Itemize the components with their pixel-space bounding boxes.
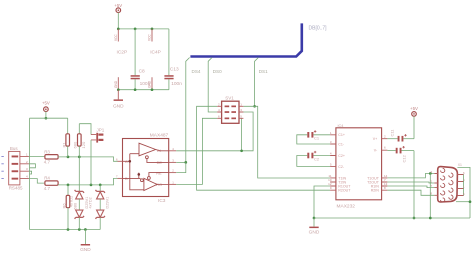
wire +5V down bbox=[413, 116, 415, 139]
wire net B row bbox=[58, 178, 117, 185]
svg-text:Bus: Bus bbox=[10, 146, 19, 151]
wire VCC rail top bbox=[118, 28, 169, 30]
svg-text:C1+: C1+ bbox=[338, 133, 345, 137]
jumper JP1 bbox=[91, 128, 105, 143]
wire to C8 bbox=[134, 29, 136, 75]
svg-text:C2+: C2+ bbox=[338, 154, 345, 158]
wire X1 right loopback bbox=[463, 175, 465, 196]
svg-text:680: 680 bbox=[72, 141, 77, 148]
svg-text:VCC: VCC bbox=[148, 34, 152, 41]
IC3 pin DI stub bbox=[169, 150, 177, 152]
wire DI to SV1 pin3 bbox=[176, 112, 253, 151]
supply +5V symbol P2 bbox=[42, 100, 50, 111]
net DS1 wire (bus entry) bbox=[255, 58, 259, 107]
wire diode column B bbox=[99, 185, 101, 191]
blue pin marks bbox=[1, 156, 3, 178]
svg-text:SV1: SV1 bbox=[225, 96, 234, 101]
IC3 internal wiring bbox=[123, 154, 144, 190]
svg-text:GND: GND bbox=[114, 80, 118, 88]
svg-text:GND: GND bbox=[80, 247, 91, 253]
svg-text:680: 680 bbox=[73, 202, 78, 209]
wire between diodes col A bbox=[78, 199, 80, 210]
wire to C13 bbox=[168, 29, 170, 75]
diode D2 zener (lower, col A) bbox=[75, 210, 84, 219]
ground symbol bottom left bbox=[80, 230, 91, 254]
IC3 pin RO stub bbox=[169, 183, 177, 185]
wire SV1 pin2 to MAX232 R2OUT bbox=[197, 106, 331, 190]
svg-text:C8: C8 bbox=[139, 68, 145, 74]
junction C12 gnd bbox=[413, 217, 416, 220]
IC2P VCC pin bbox=[114, 29, 119, 42]
svg-text:4.7: 4.7 bbox=[44, 160, 51, 165]
junction B-JP1 bbox=[90, 184, 93, 187]
junction bbox=[117, 28, 120, 31]
svg-text:R6: R6 bbox=[62, 203, 67, 209]
svg-text:IC2P: IC2P bbox=[117, 50, 128, 56]
wire T2OUT to X1 bbox=[387, 182, 434, 183]
MAX232 pin names bbox=[338, 133, 379, 192]
header SV1 bbox=[217, 96, 243, 124]
X1 pin numbers bbox=[430, 170, 465, 196]
resistor R3 bbox=[44, 149, 58, 164]
wire T1OUT to X1 bbox=[387, 174, 434, 178]
wire C13 bottom bbox=[168, 79, 170, 89]
wire pin2 to gnd vertical bbox=[29, 164, 36, 168]
svg-text:RS485: RS485 bbox=[9, 186, 23, 191]
junction bbox=[45, 117, 48, 120]
svg-text:VCC: VCC bbox=[114, 34, 118, 41]
MAX232 left pin stubs bbox=[330, 135, 336, 190]
svg-text:C1-: C1- bbox=[338, 142, 345, 146]
svg-text:C2-: C2- bbox=[338, 165, 345, 169]
svg-text:X1: X1 bbox=[458, 163, 462, 167]
junction ring bbox=[469, 200, 472, 203]
wire R1OUT to gnd bbox=[314, 186, 330, 218]
IC3 pin B stub bbox=[118, 177, 123, 179]
wire +5V to rail bbox=[117, 13, 119, 29]
wire gnd rail right bbox=[314, 217, 470, 219]
wire left vertical rail bbox=[29, 118, 31, 229]
junction gnd rail X1 bbox=[429, 217, 432, 220]
X1 contacts right column bbox=[449, 173, 453, 199]
svg-text:DB[0..7]: DB[0..7] bbox=[309, 26, 328, 32]
junction bbox=[78, 228, 81, 231]
capacitor C1 bbox=[297, 130, 330, 144]
resistor R4 bbox=[44, 176, 58, 191]
svg-text:DZ9V1: DZ9V1 bbox=[105, 197, 109, 209]
junction B-R6 bbox=[67, 184, 70, 187]
IC3 pin A stub bbox=[118, 160, 123, 162]
ground symbol right bbox=[309, 218, 320, 236]
IC3 pin RE stub bbox=[169, 172, 177, 174]
svg-text:MAX232: MAX232 bbox=[337, 204, 356, 210]
wire top rail to R1 bbox=[30, 117, 68, 119]
IC3 internal receiver triangle bbox=[141, 173, 169, 191]
MAX232 pin numbers bbox=[328, 131, 388, 190]
SV1 pin numbers bbox=[218, 102, 242, 118]
capacitor C8 bbox=[131, 68, 151, 87]
svg-text:IC4P: IC4P bbox=[150, 50, 161, 56]
svg-text:R2OUT: R2OUT bbox=[338, 189, 351, 193]
svg-text:R1: R1 bbox=[61, 142, 66, 148]
IC3 pin DE stub bbox=[169, 161, 177, 163]
IC4P GND pin bbox=[148, 77, 153, 90]
wire diode A bottom bbox=[78, 217, 80, 229]
svg-text:120: 120 bbox=[81, 141, 86, 148]
svg-text:DS0: DS0 bbox=[213, 69, 222, 74]
svg-text:DS4: DS4 bbox=[192, 69, 201, 74]
svg-text:C11: C11 bbox=[390, 129, 395, 137]
svg-text:+5V: +5V bbox=[42, 100, 50, 105]
wire SV1 pin1 to MAX232 T1IN bbox=[243, 106, 330, 178]
connector X1 DB9 body bbox=[438, 163, 462, 202]
wire RO to SV1 pin6 bbox=[176, 118, 217, 184]
svg-text:C13: C13 bbox=[170, 67, 179, 73]
X1 right pin stubs bbox=[457, 175, 463, 196]
junction bbox=[117, 88, 120, 91]
junction bbox=[67, 228, 70, 231]
wire diode B bottom bbox=[99, 217, 101, 229]
connector pin stubs bbox=[20, 156, 29, 178]
svg-text:C2: C2 bbox=[314, 156, 320, 161]
svg-text:GND: GND bbox=[113, 104, 124, 110]
junction pin5-DI bbox=[240, 149, 243, 152]
MAX232 right pin stubs bbox=[382, 139, 388, 191]
IC4P VCC pin bbox=[148, 29, 153, 42]
diode D1 zener (upper, col A) bbox=[75, 190, 84, 199]
junction X1 pin2 bbox=[429, 172, 432, 175]
wire C12 to gnd rail bbox=[413, 151, 415, 218]
capacitor C13 bbox=[164, 67, 182, 87]
wire bottom gnd rail bbox=[30, 229, 101, 231]
junction bbox=[151, 88, 154, 91]
svg-text:R3: R3 bbox=[44, 149, 50, 154]
X1 left pin stubs bbox=[434, 174, 437, 196]
wire X1 pin5 to ring bbox=[456, 201, 470, 203]
svg-text:4xTD2: 4xTD2 bbox=[89, 197, 93, 208]
junction bbox=[151, 28, 154, 31]
svg-text:C1: C1 bbox=[314, 136, 320, 141]
junction gnd rail left bbox=[313, 217, 316, 220]
wire diode column A bbox=[78, 157, 80, 191]
svg-text:DS1: DS1 bbox=[259, 69, 268, 74]
junction A-R2/diodes bbox=[78, 156, 81, 159]
wire net A row bbox=[58, 157, 117, 161]
IC3 pin names bbox=[125, 148, 162, 187]
junction DE/DS4 bbox=[184, 161, 187, 164]
IC3 pin numbers bbox=[116, 147, 174, 185]
svg-text:R2IN: R2IN bbox=[371, 189, 380, 193]
junction bbox=[134, 28, 137, 31]
supply +5V symbol P1 bbox=[114, 3, 122, 12]
wire SV1 pin5 to DI net bbox=[241, 118, 243, 151]
supply +5V symbol P3 bbox=[410, 106, 418, 116]
svg-text:MAX487: MAX487 bbox=[150, 133, 169, 139]
diode D4 zener (lower, col B) bbox=[96, 210, 105, 219]
op-amp/ic IC3 MAX487 box bbox=[123, 133, 169, 204]
junction A-R1 bbox=[67, 156, 70, 159]
bus DB[0..7] bbox=[190, 23, 301, 56]
svg-text:JP1: JP1 bbox=[97, 128, 105, 133]
capacitor C11 bbox=[387, 129, 414, 142]
svg-text:IC3: IC3 bbox=[158, 198, 166, 204]
wire +5V drop bbox=[45, 112, 47, 119]
svg-text:IC4: IC4 bbox=[338, 124, 344, 128]
diode D3 zener (upper, col B) bbox=[96, 190, 105, 199]
svg-text:100n: 100n bbox=[140, 81, 151, 87]
resistor R1 pullup 680 bbox=[61, 118, 77, 157]
junction DS1 on pin1 wire bbox=[253, 105, 256, 108]
wire GND rail of block bbox=[118, 89, 169, 91]
connector pin numbers bbox=[26, 152, 28, 178]
IC3 internal driver triangle bbox=[139, 143, 169, 162]
resistor R2 termination 120 bbox=[78, 124, 87, 157]
svg-text:100n: 100n bbox=[171, 81, 182, 87]
svg-text:4.7: 4.7 bbox=[44, 186, 51, 191]
IC2P GND pin bbox=[114, 77, 119, 90]
IC3 internal junction B bbox=[138, 173, 141, 176]
IC3 internal junction A bbox=[129, 160, 132, 163]
svg-text:GND: GND bbox=[309, 230, 320, 236]
junction B-diodes bbox=[99, 184, 102, 187]
net DS0 wire (bus entry) bbox=[208, 58, 212, 107]
net DS4 wire (bus entry, to IC3 DE/RE) bbox=[186, 58, 190, 163]
svg-text:R4: R4 bbox=[44, 176, 50, 181]
wire JP1 pin2 down to net B bbox=[90, 140, 92, 185]
ic IC4 MAX232 box bbox=[336, 124, 382, 210]
resistor R6 pulldown 680 bbox=[62, 185, 78, 230]
wire DS0 to SV1 pin4 bbox=[208, 106, 217, 112]
X1 contacts left column bbox=[441, 168, 445, 202]
wire DE to RE tie bbox=[176, 162, 186, 172]
connector Bus RS485 bbox=[9, 146, 23, 190]
wire C8 bottom bbox=[134, 79, 136, 89]
wire pin3 to gnd vertical bbox=[29, 171, 32, 174]
wire R2IN to X1 bbox=[387, 190, 434, 195]
wire pin1 to R3 bbox=[29, 155, 45, 157]
capacitor C2 bbox=[297, 151, 330, 166]
wire X1 shield ring bbox=[457, 167, 470, 218]
junction bbox=[84, 228, 87, 231]
junction bbox=[134, 88, 137, 91]
wire pin4 to R4 bbox=[29, 179, 45, 184]
wire X1 gnd drop bbox=[429, 174, 431, 219]
ground symbol top block bbox=[113, 90, 124, 110]
wire R1IN to X1 bbox=[387, 186, 434, 188]
wire between diodes col B bbox=[99, 199, 101, 210]
capacitor C12 bbox=[387, 146, 414, 163]
wire R2 top to JP1 pin1 bbox=[79, 124, 91, 135]
svg-text:C12: C12 bbox=[402, 154, 407, 162]
svg-text:+5V: +5V bbox=[410, 106, 418, 111]
wire DE junction bbox=[176, 161, 186, 163]
svg-text:V+: V+ bbox=[373, 137, 378, 141]
